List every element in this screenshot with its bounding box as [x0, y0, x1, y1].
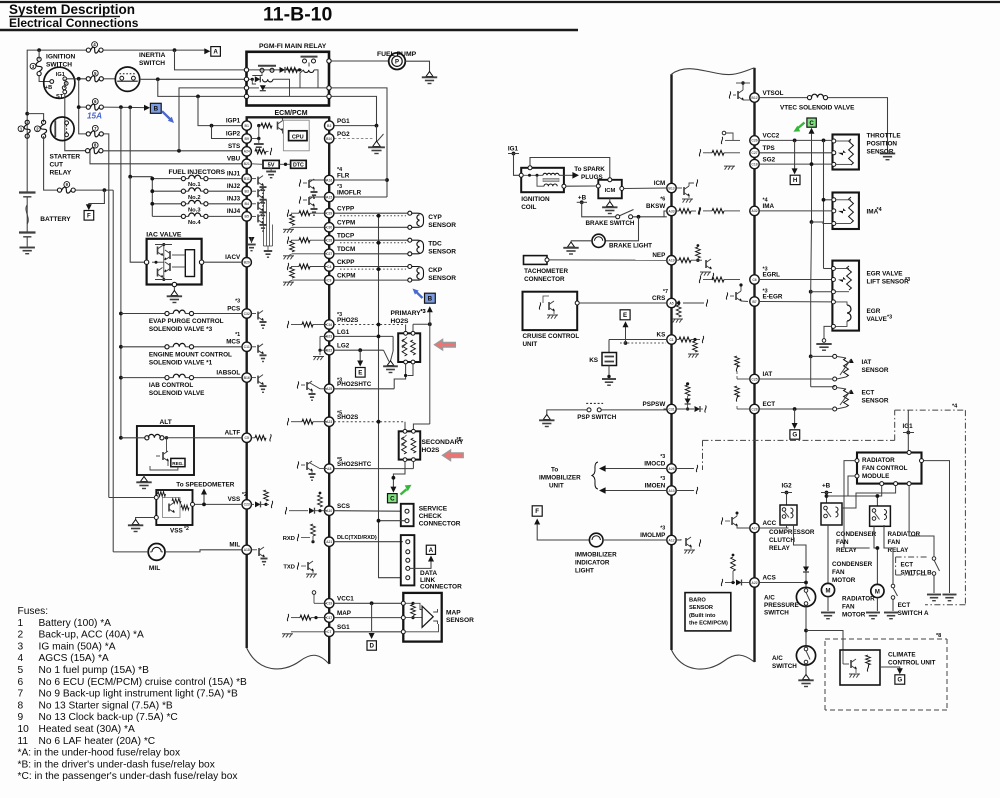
radiator fan control module box	[855, 451, 924, 486]
wire pressure to A/C switch	[805, 607, 807, 646]
svg-text:A/C: A/C	[772, 655, 783, 662]
svg-text:Electrical Connections: Electrical Connections	[9, 16, 139, 30]
svg-text:LG2: LG2	[337, 343, 350, 350]
wire VTSOL	[759, 97, 807, 99]
fuse 7 number	[92, 125, 98, 131]
wire LG2 ground drop	[384, 350, 390, 361]
internal resistor CYPP	[287, 210, 327, 217]
fuse 1	[24, 120, 30, 138]
terminal A32 (IMA)	[750, 206, 759, 215]
terminal A15 (IMOFLR)	[325, 192, 334, 201]
wire to fuse2	[27, 114, 43, 123]
svg-text:SWITCH: SWITCH	[764, 610, 789, 617]
EGR valve coil	[835, 302, 851, 327]
svg-text:SENSOR: SENSOR	[862, 398, 889, 405]
svg-text:IACV: IACV	[225, 254, 241, 261]
svg-text:FAN: FAN	[832, 569, 845, 576]
MAP sensor internals	[405, 602, 438, 632]
wire PG2 to ground	[334, 138, 373, 140]
svg-text:B1: B1	[245, 124, 249, 128]
svg-text:C16: C16	[326, 323, 332, 327]
wire E marker	[625, 327, 627, 344]
relay pin left 3	[244, 86, 248, 90]
svg-text:SENSOR: SENSOR	[862, 367, 889, 374]
wire ACC	[759, 527, 788, 529]
relay contact 2	[301, 57, 318, 67]
wire ECT	[759, 408, 833, 410]
svg-text:A10: A10	[326, 509, 332, 513]
internal wire IGP join	[258, 126, 260, 139]
svg-text:A19: A19	[668, 259, 674, 263]
injector feed wire	[130, 107, 152, 176]
wire +B to condenser relay	[826, 493, 828, 504]
junction 5V-DTC	[284, 163, 287, 166]
svg-text:KS: KS	[589, 357, 599, 364]
junction SG1/D	[371, 631, 373, 633]
svg-text:BKSW: BKSW	[646, 203, 665, 210]
wire EGRL	[759, 279, 831, 281]
5V ground	[266, 168, 276, 177]
ECT switch B ground	[927, 575, 941, 600]
svg-text:MOTOR: MOTOR	[832, 577, 856, 584]
wire coil top loop	[530, 158, 610, 178]
wire compressor relay out	[794, 525, 807, 563]
radiator fan motor wire	[874, 526, 877, 584]
wire H marker drop	[792, 140, 798, 174]
svg-text:CLIMATE: CLIMATE	[888, 652, 916, 659]
svg-text:11: 11	[18, 736, 29, 747]
junction injector No.2	[150, 189, 154, 193]
svg-text:IABSOL: IABSOL	[216, 369, 240, 376]
svg-text:IG main (50A) *A: IG main (50A) *A	[39, 641, 116, 652]
wire IAT top	[811, 355, 833, 357]
IAC valve ground	[167, 291, 182, 303]
junction shield TDC	[377, 241, 381, 245]
svg-text:SOLENOID VALVE *1: SOLENOID VALVE *1	[149, 359, 213, 366]
svg-text:RADIATOR: RADIATOR	[888, 531, 921, 538]
connector marker E	[356, 368, 366, 378]
terminal A19 (NEP)	[667, 256, 676, 265]
fuse 9 number	[64, 182, 70, 188]
wire 5V-DTC	[279, 163, 290, 165]
svg-text:+B: +B	[578, 194, 587, 201]
junction E marker	[624, 341, 628, 345]
svg-text:SENSOR: SENSOR	[428, 249, 456, 256]
wire SG2 to IAT	[809, 292, 813, 359]
svg-text:SHO2SHTC: SHO2SHTC	[337, 461, 372, 468]
terminal C1 (KS)	[667, 335, 676, 344]
svg-text:No 9 Back-up light instrument: No 9 Back-up light instrument light (7.5…	[39, 689, 239, 700]
wire IACV	[204, 261, 242, 263]
wire module bottom pin2	[842, 486, 896, 508]
svg-text:G: G	[792, 432, 797, 439]
relay contact 1	[258, 66, 276, 73]
ignition coil left pin	[519, 173, 523, 177]
svg-text:LG1: LG1	[337, 329, 350, 336]
junction PG1	[375, 124, 379, 128]
svg-text:SOLENOID VALVE *3: SOLENOID VALVE *3	[149, 326, 213, 333]
svg-text:C26: C26	[751, 139, 757, 143]
svg-text:+B: +B	[45, 85, 52, 91]
svg-text:CONTROL UNIT: CONTROL UNIT	[888, 660, 936, 667]
internal transistor INJ3	[251, 201, 266, 219]
svg-text:ENGINE MOUNT CONTROL: ENGINE MOUNT CONTROL	[149, 351, 232, 358]
wire to F marker	[89, 190, 105, 206]
injector feed drop	[151, 177, 153, 217]
ICM ground	[602, 198, 617, 213]
wire C to IMA lower	[810, 220, 832, 224]
ignition switch	[44, 67, 75, 100]
EGR ground	[816, 339, 831, 351]
svg-text:B9: B9	[245, 137, 249, 141]
svg-text:VBU: VBU	[227, 156, 241, 163]
wire IAT	[759, 378, 833, 380]
svg-text:F: F	[535, 508, 539, 515]
svg-text:A12: A12	[668, 538, 674, 542]
internal BKSW	[676, 208, 700, 215]
svg-text:IGP2: IGP2	[226, 130, 241, 137]
svg-text:C1: C1	[669, 338, 673, 342]
svg-text:CRUISE CONTROL: CRUISE CONTROL	[523, 333, 580, 340]
svg-text:FAN: FAN	[888, 539, 901, 546]
internal transistor ENGINE MOUNT CONTROL	[251, 344, 266, 362]
terminal A18 (MIL)	[242, 545, 251, 554]
junction IGP feed	[196, 95, 200, 99]
internal IMOLMP	[676, 537, 701, 554]
ICM top pin	[608, 178, 612, 182]
internal junction IGP2	[257, 137, 260, 140]
internal VSS diode	[251, 490, 272, 508]
fuel injector No.3 coil	[152, 200, 242, 206]
svg-text:C31: C31	[668, 407, 674, 411]
svg-text:VCC1: VCC1	[337, 596, 354, 603]
radiator fan relay	[870, 506, 891, 526]
terminal A16 (FLR)	[325, 175, 334, 184]
junction IAC feed	[128, 105, 132, 109]
wire relay to FLR	[331, 88, 387, 197]
terminal B20 (IACV)	[242, 258, 251, 267]
wire TDCP	[334, 239, 408, 241]
internal transistor MIL	[251, 547, 267, 565]
svg-text:COMPRESSOR: COMPRESSOR	[769, 529, 815, 536]
junction ECT A	[883, 547, 885, 549]
wire tach to NEP	[549, 259, 667, 261]
svg-text:*3: *3	[337, 377, 342, 383]
svg-text:B22: B22	[326, 349, 332, 353]
svg-text:ALT: ALT	[160, 419, 172, 426]
junction FLR	[385, 178, 389, 182]
fuse 6 number	[92, 99, 98, 105]
svg-text:*C: in the passenger's under-d: *C: in the passenger's under-dash fuse/r…	[18, 771, 238, 782]
svg-text:A25: A25	[326, 387, 332, 391]
svg-text:MIL: MIL	[149, 565, 160, 572]
svg-text:B13: B13	[668, 186, 674, 190]
svg-text:IAT: IAT	[763, 371, 773, 378]
condenser fan motor wire	[827, 525, 829, 584]
wire IGP1 feed	[198, 96, 242, 125]
terminal A33 (BKSW)	[667, 206, 676, 215]
svg-text:STARTER: STARTER	[50, 154, 81, 161]
junction battery/starter fuses	[25, 112, 29, 116]
CKP sensor	[408, 265, 424, 283]
svg-text:MIL: MIL	[229, 542, 240, 549]
terminal C7 (SG1)	[325, 627, 334, 636]
wire IG1 to fuse5	[67, 78, 87, 80]
ECM bottom tear	[247, 648, 330, 669]
svg-text:A18: A18	[244, 548, 250, 552]
terminal C28 (ECT)	[750, 404, 759, 413]
wire fuse2 to fuse9	[44, 136, 58, 190]
svg-text:A17: A17	[751, 526, 757, 530]
svg-text:STS: STS	[228, 143, 240, 150]
connector marker A arrow	[204, 48, 210, 54]
MAP sensor pins	[401, 601, 405, 634]
svg-text:PHO2SHTC: PHO2SHTC	[337, 381, 372, 388]
svg-text:1: 1	[18, 618, 24, 629]
internal resistor ALTF	[251, 434, 271, 441]
internal PHO2SHTC	[297, 381, 327, 400]
svg-text:C: C	[390, 495, 395, 502]
svg-text:B4: B4	[245, 202, 249, 206]
terminal C19 (VCC1)	[325, 599, 334, 608]
svg-text:SWITCH: SWITCH	[46, 62, 72, 69]
ECM right bus	[328, 117, 330, 664]
internal IMA	[699, 207, 740, 214]
svg-text:FAN: FAN	[836, 539, 849, 546]
connector marker G	[790, 430, 800, 439]
terminal C32 (PCS)	[242, 309, 251, 318]
svg-text:A/C: A/C	[764, 595, 775, 602]
terminal A5 (CRS)	[667, 298, 676, 307]
wire SHO2SHTC	[334, 462, 414, 469]
fuse 1 number	[18, 126, 24, 132]
wire D marker drop	[371, 603, 373, 631]
svg-text:ACC: ACC	[763, 520, 777, 527]
title System Description	[9, 2, 135, 17]
wire secondary to C marker	[390, 462, 405, 493]
junction shield CYP	[377, 214, 381, 218]
IAC valve bottom pin	[172, 282, 176, 286]
immobilizer arrows	[599, 465, 667, 494]
terminal B23 (LG1)	[325, 332, 334, 341]
data link connector box	[401, 535, 415, 585]
internal NEP	[676, 244, 714, 280]
wire VSS signal	[195, 503, 243, 505]
wire inertia to relay pin2	[140, 78, 245, 80]
svg-text:*7: *7	[663, 289, 668, 295]
ALT internal wires	[164, 437, 194, 439]
secondary HO2S box	[399, 429, 421, 461]
svg-text:PSPSW: PSPSW	[643, 401, 666, 408]
svg-text:NEP: NEP	[652, 252, 665, 259]
svg-text:*2: *2	[184, 526, 189, 532]
wire VSS ground	[136, 518, 155, 522]
+B junction	[577, 200, 587, 204]
internal ground IGP	[254, 139, 264, 151]
svg-text:CYPP: CYPP	[337, 206, 354, 213]
svg-text:CKPM: CKPM	[337, 273, 356, 280]
svg-text:SWITCH: SWITCH	[139, 60, 165, 67]
wire IGP2 feed	[212, 126, 243, 139]
wire fuse6 to B marker	[103, 106, 144, 109]
svg-text:ECT: ECT	[901, 562, 914, 569]
fuse 9	[57, 187, 75, 193]
relay internal diode 3	[260, 85, 268, 91]
wire CYPM	[334, 226, 408, 228]
svg-text:C28: C28	[751, 407, 757, 411]
svg-text:E: E	[623, 312, 627, 319]
junction battery/fuse3	[37, 48, 41, 52]
relay pin right 3	[327, 94, 331, 98]
wire G marker drop	[792, 409, 798, 429]
svg-text:*3: *3	[337, 312, 342, 318]
svg-text:IAT: IAT	[862, 359, 872, 366]
wire MIL feed	[112, 190, 114, 552]
terminal C26 (VCC2)	[750, 136, 759, 145]
connector marker A	[211, 47, 221, 57]
svg-text:EGR VALVE: EGR VALVE	[867, 271, 904, 278]
svg-text:No.4: No.4	[188, 220, 201, 226]
terminal C6 (EGRL)	[750, 275, 759, 284]
terminal C16 (PHO2S)	[325, 320, 334, 329]
terminal A12 (IMOLMP)	[667, 535, 676, 544]
VTEC solenoid valve coil	[807, 94, 827, 100]
junction speedometer	[202, 503, 206, 507]
fuse 3	[36, 57, 42, 75]
svg-text:VSS: VSS	[228, 496, 241, 503]
service check connector box	[401, 504, 414, 526]
junction shield CKP	[377, 267, 381, 271]
fuse 6	[86, 104, 103, 110]
IAC valve ground wire	[173, 287, 175, 292]
connector marker C	[388, 494, 398, 503]
internal MAP	[287, 614, 327, 621]
starter cut relay	[51, 117, 75, 141]
diode A/C	[803, 563, 809, 587]
svg-text:VALVE: VALVE	[867, 316, 888, 323]
internal KS	[676, 336, 704, 358]
wire MIL left	[113, 551, 148, 553]
svg-text:DLC(TXD/RXD): DLC(TXD/RXD)	[337, 535, 377, 541]
svg-text:C30: C30	[326, 226, 332, 230]
junction IG1 branch	[77, 77, 81, 81]
terminal C11 (MCS)	[242, 342, 251, 351]
wire CRS	[579, 302, 667, 304]
wire into IAC valve	[130, 177, 144, 263]
internal IACV ground	[247, 237, 255, 251]
junction VCC2/IMA	[822, 139, 826, 143]
svg-text:C28: C28	[326, 239, 332, 243]
inertia switch	[115, 67, 139, 91]
svg-text:VTEC SOLENOID VALVE: VTEC SOLENOID VALVE	[780, 105, 855, 112]
svg-text:6: 6	[18, 677, 24, 688]
svg-text:No.3: No.3	[188, 207, 201, 213]
svg-text:CHECK: CHECK	[419, 513, 442, 520]
svg-text:H: H	[793, 177, 798, 184]
fuel injector No.4 coil	[152, 213, 242, 219]
internal SHO2S	[287, 418, 327, 425]
junction shield SHO2S	[377, 420, 381, 424]
svg-text:SENSOR: SENSOR	[428, 222, 456, 229]
junction inertia branch	[156, 77, 160, 81]
terminal A17 (ACC)	[750, 523, 759, 532]
terminal A21 (DLC(TXD/RXD))	[325, 537, 334, 546]
svg-text:B20: B20	[244, 261, 250, 265]
throttle position sensor box	[832, 135, 859, 170]
svg-text:KS: KS	[657, 331, 666, 338]
wire SG1	[334, 631, 403, 633]
svg-text:LIFT SENSOR: LIFT SENSOR	[867, 279, 910, 286]
condenser fan motor ground	[821, 597, 835, 619]
svg-text:7: 7	[18, 689, 24, 700]
svg-text:RADIATOR: RADIATOR	[842, 596, 875, 603]
terminal B13 (ICM)	[667, 183, 676, 192]
connector marker F 2	[532, 506, 542, 516]
shield drain wire	[379, 216, 402, 578]
svg-text:Fuses:: Fuses:	[18, 606, 49, 617]
internal resistor CKPP	[287, 263, 327, 270]
terminal A24 (STS)	[242, 147, 251, 156]
svg-text:ICM: ICM	[605, 188, 616, 194]
relay pin right 2	[327, 86, 331, 90]
junction SCS shield	[377, 519, 381, 523]
svg-text:RELAY: RELAY	[769, 545, 791, 552]
svg-text:B11: B11	[244, 177, 250, 181]
svg-text:E-EGR: E-EGR	[763, 294, 783, 301]
junction fuse9/F	[103, 188, 107, 192]
wire C marker down	[809, 128, 815, 222]
VSS left pin bottom	[154, 516, 158, 520]
ignition coil box	[521, 168, 564, 192]
svg-text:E: E	[358, 370, 362, 377]
fuse 8	[86, 148, 104, 154]
ECT switch A ground	[884, 599, 898, 618]
condenser fan relay	[821, 503, 842, 525]
wire ACC to relay	[786, 525, 788, 528]
tachometer connector	[524, 256, 550, 265]
svg-text:IMOLMP: IMOLMP	[640, 532, 665, 539]
svg-text:*3: *3	[337, 184, 342, 190]
svg-text:*3: *3	[905, 277, 910, 283]
svg-text:SG2: SG2	[763, 156, 776, 163]
internal PSPSW	[676, 382, 706, 412]
blue arrow pointer 2	[416, 292, 423, 298]
wire MAP	[334, 617, 403, 619]
internal SCS	[285, 492, 327, 515]
internal hatch CKPM	[283, 267, 327, 286]
wire IG1 to coil	[514, 154, 520, 176]
primary HO2S box	[398, 331, 420, 364]
svg-text:SENSOR: SENSOR	[867, 149, 894, 156]
internal SG1	[282, 632, 327, 638]
svg-text:*1: *1	[235, 332, 240, 338]
svg-text:IAC VALVE: IAC VALVE	[146, 232, 182, 239]
wire coil to spark plugs	[559, 172, 579, 179]
connector marker H	[790, 175, 800, 184]
wire VCC2 to IMA	[823, 140, 825, 268]
svg-text:CONDENSER: CONDENSER	[832, 561, 873, 568]
svg-text:*4: *4	[763, 198, 768, 204]
terminal B22 (LG2)	[325, 346, 334, 355]
svg-text:FAN: FAN	[842, 604, 855, 611]
red arrow secondary	[443, 450, 464, 461]
svg-text:11-B-10: 11-B-10	[263, 4, 333, 26]
A/C pressure switch	[796, 587, 815, 606]
fuse 7	[86, 131, 103, 137]
climate inner box	[840, 650, 880, 685]
relay internal wire b	[249, 78, 253, 80]
terminal B5 (INJ4)	[242, 212, 251, 221]
